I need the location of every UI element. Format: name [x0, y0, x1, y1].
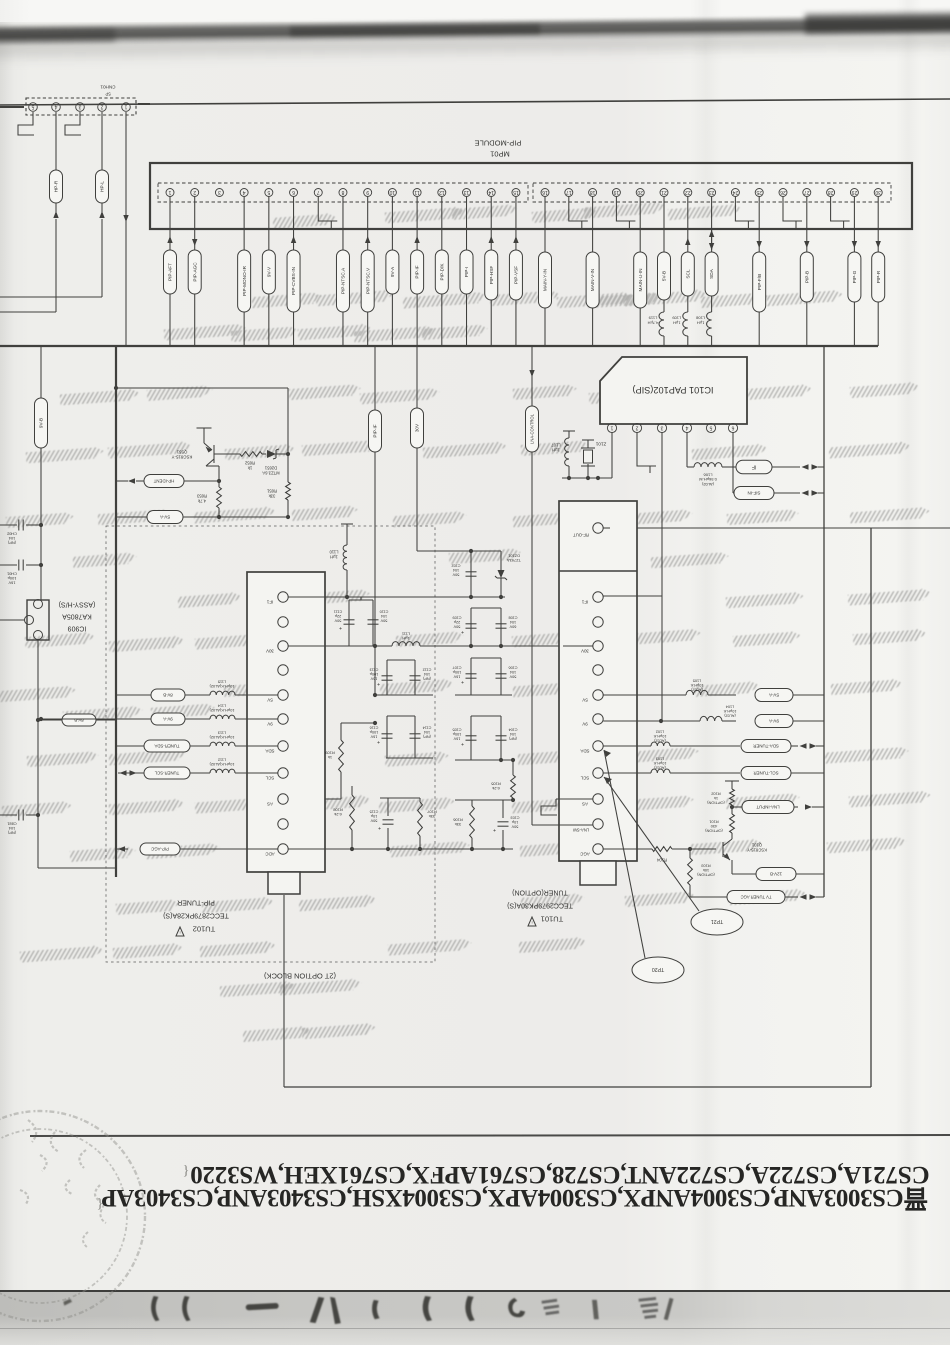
- svg-text:(OPTION): (OPTION): [705, 828, 723, 833]
- inductor L111 1uH: [392, 642, 420, 646]
- svg-text:PIP-MONO-IR: PIP-MONO-IR: [242, 265, 247, 296]
- svg-text:Q101: Q101: [751, 843, 762, 848]
- svg-text:100µ: 100µ: [452, 732, 461, 736]
- svg-text:1: 1: [610, 424, 613, 430]
- svg-text:30V: 30V: [581, 648, 589, 653]
- net label TV TUNER AGC: [690, 896, 727, 898]
- svg-text:12V-B: 12V-B: [770, 871, 782, 876]
- svg-text:L111: L111: [401, 632, 410, 637]
- svg-text:LNA-INPUT: LNA-INPUT: [756, 804, 779, 809]
- svg-text:HP-L: HP-L: [100, 181, 105, 192]
- svg-text:C881: C881: [7, 822, 16, 827]
- svg-text:R108: R108: [332, 808, 342, 813]
- net label TUNER-SDA: [144, 740, 190, 752]
- resistor R108 6.2k: [351, 786, 353, 795]
- svg-text:PIP-IF: PIP-IF: [373, 424, 378, 437]
- inductor L110 1uH: [346, 570, 348, 597]
- svg-text:PIP-D/K: PIP-D/K: [439, 263, 444, 281]
- svg-text:100µ: 100µ: [369, 730, 378, 734]
- wire TU101 LNA-SW row: [532, 824, 593, 826]
- net 30V drop: [416, 346, 418, 408]
- net label SCL (module pin 22): [687, 197, 689, 252]
- wire TU102 SCL row: [118, 772, 144, 774]
- svg-text:SDA: SDA: [709, 268, 714, 279]
- svg-text:HP-R: HP-R: [54, 180, 59, 192]
- wire TU102 5V row: [116, 694, 210, 696]
- transistor Q551 KSC815-Y: [197, 427, 212, 429]
- svg-text:R102: R102: [711, 792, 720, 797]
- svg-text:(ASSY-H/S): (ASSY-H/S): [59, 601, 96, 608]
- TU102 pins: [278, 592, 288, 602]
- svg-text:9V-B: 9V-B: [39, 418, 44, 428]
- svg-text:50V: 50V: [334, 618, 341, 622]
- tuner TU102 box: [247, 572, 325, 872]
- ground module pin 24: [734, 197, 736, 207]
- svg-text:10µH-K: 10µH-K: [690, 683, 703, 687]
- capacitor C109 22u 50V: [470, 608, 472, 646]
- capacitor C116 100u 16V: [382, 733, 393, 735]
- wire TU102 30V row: [288, 645, 392, 647]
- svg-text:9V-V: 9V-V: [266, 266, 271, 277]
- tuner TU101 box: [559, 501, 637, 861]
- svg-text:R653: R653: [196, 494, 207, 499]
- svg-text:104: 104: [510, 620, 516, 624]
- svg-text:AS: AS: [267, 801, 273, 806]
- svg-text:TU102: TU102: [193, 924, 216, 933]
- svg-text:SDA: SDA: [265, 748, 274, 753]
- resistor R105 6.2k: [512, 760, 514, 775]
- svg-text:+: +: [461, 628, 464, 634]
- wire IC101 pin4 to IF: [686, 432, 688, 467]
- svg-text:C111: C111: [334, 610, 343, 614]
- svg-text:+: +: [493, 826, 496, 832]
- svg-text:C107: C107: [452, 666, 461, 670]
- net label TUNER-SCL: [144, 767, 190, 779]
- wire IC101 pin6 to SIF-IN: [732, 432, 734, 493]
- svg-text:16V: 16V: [453, 736, 460, 740]
- svg-text:16V: 16V: [8, 580, 15, 585]
- svg-text:100µ: 100µ: [7, 576, 16, 581]
- svg-text:5: 5: [267, 189, 270, 195]
- net label 9V-A right: [755, 715, 793, 728]
- svg-text:1µH: 1µH: [402, 636, 410, 641]
- svg-text:3: 3: [218, 189, 221, 195]
- svg-text:KA7805A: KA7805A: [62, 613, 92, 620]
- connector CNH01: [26, 98, 136, 115]
- svg-text:5P: 5P: [105, 92, 110, 97]
- capacitor C114 104 (NP): [410, 733, 421, 735]
- svg-text:TP21: TP21: [711, 918, 724, 924]
- svg-text:15: 15: [513, 189, 519, 195]
- test point TP20: [632, 957, 684, 983]
- svg-text:IC909: IC909: [68, 625, 87, 632]
- ground module pin 7: [317, 197, 319, 207]
- svg-text:L113: L113: [218, 731, 226, 736]
- inductor L113: [210, 742, 235, 746]
- net label IF: [722, 466, 736, 468]
- svg-text:SCL: SCL: [580, 775, 589, 780]
- svg-text:33k: 33k: [268, 493, 276, 498]
- svg-text:24: 24: [732, 189, 738, 195]
- svg-text:16: 16: [542, 189, 548, 195]
- svg-text:8V-B: 8V-B: [163, 692, 173, 697]
- svg-text:6.2k: 6.2k: [492, 786, 500, 791]
- inner box left (TU102 tab wire): [283, 895, 285, 1087]
- svg-text:104: 104: [8, 826, 15, 831]
- op-amp U/IC101 PAP102(SIP): [600, 357, 747, 424]
- svg-text:MTZ3.6A: MTZ3.6A: [262, 470, 279, 475]
- svg-text:10µH-K(AL02): 10µH-K(AL02): [209, 684, 235, 689]
- svg-text:5V-A: 5V-A: [768, 692, 779, 697]
- svg-text:9V: 9V: [267, 721, 272, 726]
- svg-text:25: 25: [756, 189, 762, 195]
- net label PIP-AGC: [140, 843, 180, 855]
- net label MAIN-V-IN (module pin 18): [592, 197, 594, 252]
- net label LNA-INPUT: [732, 806, 742, 808]
- module left pin strip 1-15: [158, 183, 528, 202]
- net label PIP-IF (module pin 11): [416, 197, 418, 250]
- svg-text:16V: 16V: [370, 734, 377, 738]
- svg-text:21: 21: [661, 189, 667, 195]
- svg-text:9V-A: 9V-A: [390, 266, 395, 277]
- svg-text:4: 4: [243, 189, 246, 195]
- svg-text:L115: L115: [218, 680, 226, 685]
- arrow into HP-L: [99, 211, 104, 218]
- wire PIP-IF to AS link: [341, 722, 375, 724]
- svg-text:33k: 33k: [455, 822, 461, 827]
- svg-text:18: 18: [590, 189, 596, 195]
- capacitor C881 104(NP): [0, 814, 17, 816]
- svg-text:11: 11: [414, 189, 419, 195]
- svg-text:+: +: [378, 824, 381, 830]
- svg-text:0.56µH-M: 0.56µH-M: [699, 477, 717, 482]
- wire Q551 base row: [214, 453, 240, 455]
- svg-text:PIP-TUNER: PIP-TUNER: [177, 899, 215, 906]
- svg-text:MAIN-Y-IN: MAIN-Y-IN: [543, 269, 548, 291]
- svg-text:17: 17: [566, 189, 572, 195]
- svg-text:33k: 33k: [429, 814, 435, 819]
- svg-text:PIP-MODULE: PIP-MODULE: [475, 138, 522, 147]
- svg-text:3: 3: [78, 103, 81, 109]
- svg-text:12: 12: [439, 189, 445, 195]
- net label PIP-F/B (module pin 25): [758, 197, 760, 252]
- svg-text:C113: C113: [370, 668, 379, 672]
- svg-text:TU101: TU101: [541, 914, 564, 923]
- inductor L107 1uH: [568, 466, 570, 478]
- svg-text:R107: R107: [426, 810, 436, 815]
- svg-text:L114: L114: [217, 704, 226, 709]
- net label PIP-VSF (module pin 15): [515, 197, 517, 250]
- svg-text:PIP-AFT: PIP-AFT: [168, 263, 173, 281]
- ground pin3 CNH01: [65, 112, 81, 135]
- svg-text:R109: R109: [324, 751, 334, 756]
- wire CNH01 pin1 down: [125, 112, 127, 346]
- svg-text:27: 27: [804, 189, 810, 195]
- svg-text:2: 2: [635, 424, 638, 430]
- svg-text:30V: 30V: [266, 648, 274, 653]
- svg-text:1µH: 1µH: [697, 321, 705, 326]
- svg-text:50V: 50V: [380, 618, 387, 622]
- svg-text:PIP-VSF: PIP-VSF: [514, 266, 519, 284]
- capacitor C112 104 (NP): [410, 675, 421, 677]
- wire left vertical bus: [115, 346, 117, 877]
- ground module pin 26: [782, 197, 784, 207]
- svg-text:IF: IF: [752, 463, 756, 469]
- svg-text:R651: R651: [266, 489, 277, 494]
- ground module pin 17: [568, 197, 570, 207]
- svg-text:PIP-F/B: PIP-F/B: [757, 274, 762, 290]
- wire C107/C106 rail: [455, 694, 512, 696]
- wire to D2651: [262, 453, 266, 455]
- capacitor C113 100u 16V: [382, 675, 393, 677]
- svg-text:TUNER-SDA: TUNER-SDA: [154, 743, 179, 748]
- wire C113/C112 rail: [374, 694, 433, 696]
- svg-text:30: 30: [875, 189, 881, 195]
- svg-text:L103: L103: [656, 757, 664, 761]
- svg-text:L119: L119: [648, 316, 657, 321]
- wire right bottom pair rail: [455, 799, 513, 801]
- resistor R109 1k: [340, 723, 342, 740]
- svg-text:AGC: AGC: [580, 851, 590, 856]
- wire right bus: [823, 346, 825, 897]
- wire top frame line: [0, 99, 950, 105]
- svg-text:C105: C105: [452, 728, 461, 732]
- pointer TP20 to SDA: [604, 750, 645, 958]
- capacitor C115 10u 50V: [387, 798, 389, 816]
- svg-text:1µH: 1µH: [330, 555, 338, 560]
- wire TU102 IF1 row: [288, 596, 505, 598]
- svg-text:6.2k: 6.2k: [334, 812, 342, 817]
- capacitor C108 104 60V: [500, 608, 502, 646]
- svg-text:R105: R105: [490, 782, 500, 787]
- svg-text:50V: 50V: [453, 624, 460, 628]
- svg-text:23: 23: [709, 189, 715, 195]
- svg-text:4.7µH: 4.7µH: [648, 321, 659, 326]
- svg-text:AS: AS: [582, 801, 588, 806]
- svg-text:5V: 5V: [267, 697, 272, 702]
- svg-text:50V: 50V: [511, 824, 518, 828]
- svg-text:104: 104: [8, 536, 15, 541]
- label HP-R: [50, 170, 63, 203]
- svg-text:!: !: [179, 930, 180, 935]
- svg-text:MAIN-V-IN: MAIN-V-IN: [590, 269, 595, 291]
- svg-text:L107: L107: [551, 443, 561, 448]
- svg-text:26: 26: [780, 189, 786, 195]
- net label 12V-B: [732, 873, 756, 875]
- capacitor C110 104 50V: [372, 600, 374, 646]
- svg-text:C110: C110: [380, 610, 389, 614]
- svg-text:5V-B: 5V-B: [662, 271, 667, 281]
- svg-text:16V: 16V: [370, 676, 377, 680]
- svg-text:R103: R103: [701, 864, 710, 869]
- svg-text:100µ: 100µ: [369, 672, 378, 676]
- svg-text:(OPTION): (OPTION): [707, 800, 725, 805]
- svg-text:TECC2979PK30A(S): TECC2979PK30A(S): [507, 902, 573, 909]
- capacitor CH02 104(NP): [0, 524, 17, 526]
- net label MAIN-U-IN (module pin 20): [639, 197, 641, 252]
- wire bottom AGC rail: [288, 848, 513, 850]
- net label 9V-V (module pin 5): [268, 197, 270, 250]
- svg-text:SCL-TUNER: SCL-TUNER: [753, 770, 778, 775]
- stamp bottom left: [0, 1111, 145, 1321]
- svg-text:TECC2879PK28A(S): TECC2879PK28A(S): [163, 912, 229, 919]
- svg-text:5: 5: [31, 103, 34, 109]
- wire RF-OUT row: [610, 527, 950, 529]
- svg-text:CS721A,CS722A,CS722ANT,CS728,C: CS721A,CS722A,CS722ANT,CS728,CS761APFX,C…: [190, 1161, 929, 1188]
- svg-text:10k: 10k: [703, 868, 709, 873]
- svg-text:5V-A: 5V-A: [159, 514, 170, 519]
- svg-text:R652: R652: [244, 461, 255, 466]
- svg-text:(AL02): (AL02): [691, 687, 703, 691]
- svg-text:PIP-I: PIP-I: [464, 267, 469, 277]
- resistor R106 33k: [471, 800, 473, 806]
- inductor L105: [686, 690, 708, 695]
- svg-text:C103: C103: [510, 816, 519, 820]
- wire TU101 IF1 row: [603, 595, 662, 597]
- wire HP-R down: [55, 219, 57, 312]
- svg-text:L104: L104: [726, 705, 734, 709]
- svg-text:104: 104: [510, 732, 516, 736]
- wire TU101 9V row: [603, 720, 700, 722]
- arrow into HP-R: [53, 211, 58, 218]
- svg-text:L110: L110: [329, 550, 339, 555]
- svg-text:104: 104: [424, 672, 430, 676]
- svg-text:(NP): (NP): [422, 676, 431, 680]
- svg-text:KSC815-Y: KSC815-Y: [747, 847, 767, 852]
- svg-text:PIP-CVBS-IN: PIP-CVBS-IN: [291, 267, 296, 295]
- net label PIP-I (module pin 13): [466, 197, 468, 250]
- inner box right edge: [870, 528, 872, 1087]
- svg-text:14: 14: [488, 189, 494, 195]
- arrow CNH01 pin1: [123, 215, 128, 222]
- net label PIP-R (module pin 30): [877, 197, 879, 252]
- test point TP21: [691, 909, 743, 935]
- svg-text:PIP-AGC: PIP-AGC: [192, 262, 197, 282]
- svg-text:1µH: 1µH: [552, 448, 560, 453]
- svg-text:TP20: TP20: [652, 966, 665, 972]
- svg-text:TZ793A: TZ793A: [507, 558, 521, 563]
- svg-text:10µH-K(AL02): 10µH-K(AL02): [209, 762, 235, 767]
- net label PIP-B (module pin 27): [806, 197, 808, 252]
- svg-text:6: 6: [292, 189, 295, 195]
- wire TU101 SDA row: [603, 745, 651, 747]
- net label PIP-CVBS-IN (module pin 6): [293, 197, 295, 250]
- net label PIP-D/K (module pin 12): [441, 197, 443, 250]
- wire CNH01 pin2 to HP-L: [101, 112, 103, 170]
- svg-text:50V: 50V: [509, 674, 516, 678]
- svg-text:PIP-R: PIP-R: [876, 270, 881, 283]
- svg-text:C108: C108: [508, 616, 517, 620]
- svg-text:1k: 1k: [714, 796, 718, 801]
- svg-text:10: 10: [389, 189, 395, 195]
- svg-text:IF1: IF1: [266, 599, 273, 604]
- svg-text:TUNER-SCL: TUNER-SCL: [154, 770, 179, 775]
- svg-text:7: 7: [317, 189, 320, 195]
- svg-text:(2T OPTION BLOCK): (2T OPTION BLOCK): [264, 971, 336, 980]
- wire TU101 AGC row: [603, 848, 652, 850]
- label HP-L: [96, 170, 109, 203]
- pointer TP21 to SCL: [604, 777, 699, 911]
- svg-text:IF1: IF1: [581, 599, 588, 604]
- net label PIP-NTSC.A (module pin 8): [342, 197, 344, 250]
- svg-text:9V: 9V: [582, 721, 587, 726]
- inductor L104: [700, 716, 722, 721]
- module right pin strip 16-30: [533, 183, 891, 202]
- resistor R104: [652, 847, 672, 852]
- module MP01 box: [150, 163, 912, 229]
- ground module pin 19: [615, 197, 617, 207]
- capacitor C105 100u 16V: [466, 735, 477, 737]
- svg-text:PIP-NTSC.V: PIP-NTSC.V: [365, 267, 370, 294]
- svg-text:C112: C112: [423, 668, 432, 672]
- svg-text:2: 2: [193, 189, 196, 195]
- wire C105/C104 rail: [455, 759, 513, 761]
- svg-text:3: 3: [660, 424, 663, 430]
- net label PIP-G (module pin 29): [853, 197, 855, 252]
- svg-text:+: +: [461, 678, 464, 684]
- svg-text:50V: 50V: [370, 818, 377, 822]
- svg-text:MAIN-U-IN: MAIN-U-IN: [638, 269, 643, 292]
- svg-text:104: 104: [453, 568, 459, 572]
- ground TU101 AS: [556, 798, 593, 800]
- inductor L103: [651, 769, 670, 773]
- svg-text:4: 4: [54, 103, 57, 109]
- capacitor C111 22u 50V: [348, 600, 350, 646]
- svg-text:C104: C104: [508, 728, 517, 732]
- IC101 pins 1-6: [607, 423, 616, 432]
- svg-text:Z101: Z101: [595, 441, 606, 446]
- svg-text:C102: C102: [451, 564, 460, 568]
- net label 5V-A: [116, 516, 148, 518]
- svg-text:PIP-AGC: PIP-AGC: [151, 846, 169, 851]
- wire main trunk: [0, 345, 878, 347]
- TU101 pins: [593, 592, 603, 602]
- svg-text:9V-A: 9V-A: [163, 716, 173, 721]
- inductor L112: [210, 769, 235, 773]
- inductor L114: [210, 715, 235, 719]
- svg-text:1k: 1k: [328, 755, 332, 760]
- net label 5V-A right: [755, 689, 793, 702]
- resistor R652 1k: [240, 452, 262, 457]
- svg-text:(AL02): (AL02): [724, 713, 736, 717]
- svg-text:LNA-CONTROL: LNA-CONTROL: [529, 413, 534, 444]
- net label PIP-NTSC.V (module pin 9): [367, 197, 369, 250]
- svg-text:(NP): (NP): [7, 830, 16, 835]
- svg-text:10µ: 10µ: [370, 814, 377, 818]
- inductor L102: [651, 742, 670, 746]
- svg-text:28: 28: [828, 189, 834, 195]
- halftone hatch artifacts: [0, 201, 932, 1042]
- wire Q551 top rail: [116, 387, 288, 389]
- svg-text:SDA-TUNER: SDA-TUNER: [753, 743, 779, 748]
- inner box bottom: [284, 1086, 871, 1088]
- svg-text:10µH-K: 10µH-K: [653, 734, 666, 738]
- svg-text:KSC815-Y: KSC815-Y: [172, 454, 193, 459]
- svg-text:4: 4: [685, 424, 688, 430]
- net label SDA-TUNER: [741, 740, 791, 753]
- wire IC101 pin3 down: [661, 432, 663, 721]
- net label PIP-MONO-IR (module pin 4): [243, 197, 245, 250]
- svg-text:RF-OUT: RF-OUT: [573, 533, 589, 538]
- capacitor C102 104 50V: [470, 551, 472, 597]
- svg-text:{: {: [183, 1163, 190, 1178]
- svg-text:C115: C115: [370, 810, 379, 814]
- svg-text:L105: L105: [693, 679, 701, 683]
- svg-text:1: 1: [168, 189, 171, 195]
- bottom strip print-through glyphs: [63, 1296, 673, 1324]
- svg-text:10µH-K(AL02): 10µH-K(AL02): [209, 708, 235, 713]
- inductor L115: [210, 691, 235, 695]
